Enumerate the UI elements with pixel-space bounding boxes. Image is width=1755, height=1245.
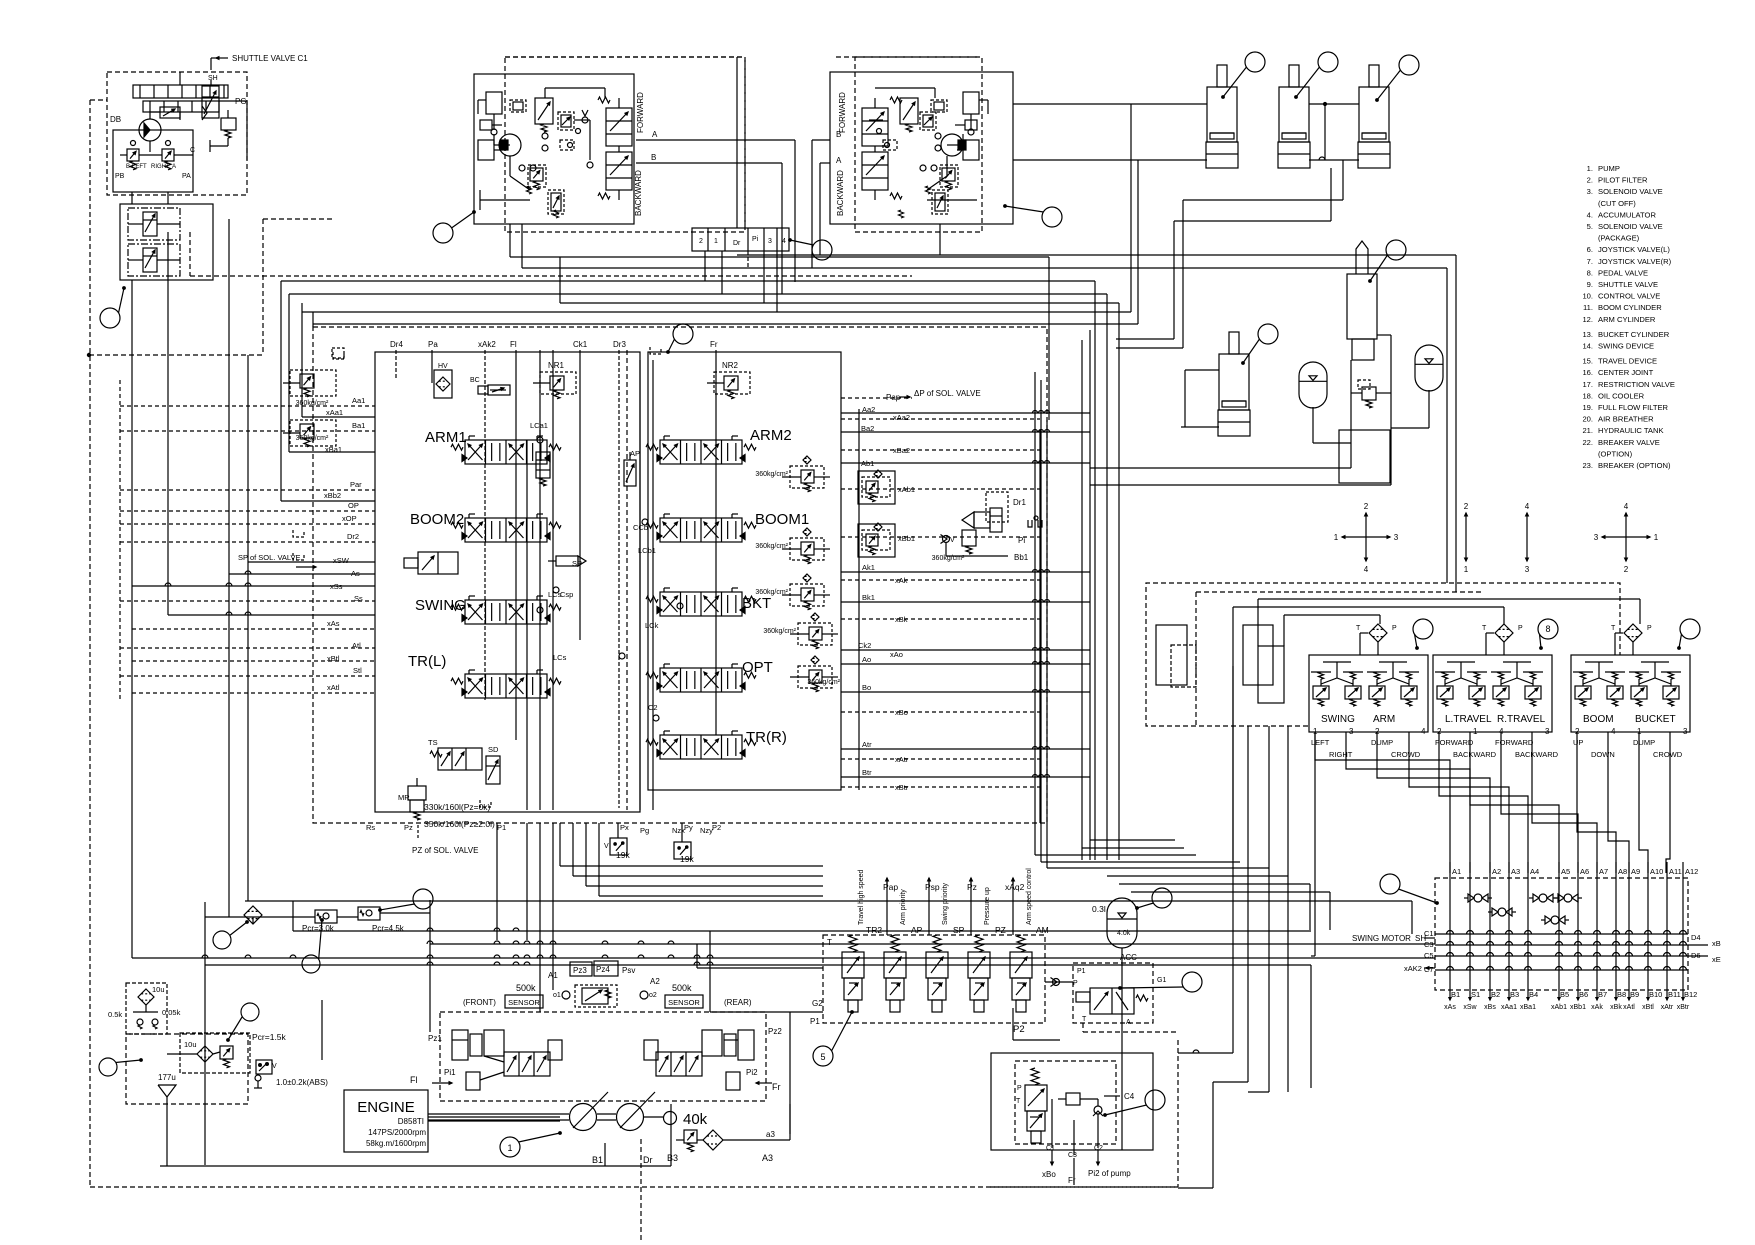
svg-text:Pz1: Pz1 — [428, 1034, 442, 1043]
svg-text:T: T — [1082, 1016, 1087, 1023]
callout filter circles — [213, 931, 231, 949]
pilot block outer dashed box — [107, 72, 247, 195]
svg-text:A6: A6 — [1580, 867, 1589, 876]
svg-text:P: P — [1518, 625, 1523, 632]
svg-text:A10: A10 — [1650, 867, 1663, 876]
pilot pump circle — [139, 119, 161, 141]
svg-text:A2: A2 — [1492, 867, 1501, 876]
svg-text:xBb1: xBb1 — [1570, 1004, 1586, 1011]
svg-text:TR(L): TR(L) — [408, 653, 446, 670]
svg-text:B5: B5 — [1560, 990, 1569, 999]
svg-text:DOWN: DOWN — [1591, 750, 1615, 759]
control valve inner solid boxes — [375, 352, 640, 812]
accumulator mid — [1299, 362, 1327, 408]
svg-text:TS: TS — [428, 738, 438, 747]
svg-text:RIGHT: RIGHT — [1329, 750, 1353, 759]
svg-text:1.: 1. — [1587, 164, 1593, 173]
svg-text:Pap: Pap — [883, 882, 898, 892]
svg-text:P1: P1 — [810, 1017, 820, 1026]
svg-text:xSW: xSW — [333, 556, 350, 565]
wire swing port down to C5 — [1314, 732, 1316, 956]
svg-text:UP: UP — [1573, 738, 1583, 747]
svg-text:Csp: Csp — [560, 590, 573, 599]
callout 1 circle — [500, 1137, 520, 1157]
svg-text:20.: 20. — [1582, 415, 1593, 424]
svg-text:BACKWARD: BACKWARD — [1453, 750, 1497, 759]
svg-text:R.TRAVEL: R.TRAVEL — [1497, 714, 1546, 725]
svg-text:Py: Py — [684, 823, 693, 832]
filter diamond left — [244, 906, 262, 924]
svg-text:P2: P2 — [1013, 1024, 1025, 1035]
pedal feed wires — [1258, 598, 1640, 600]
svg-text:OP: OP — [348, 501, 359, 510]
svg-text:PILOT FILTER: PILOT FILTER — [1598, 176, 1648, 185]
svg-text:D858TI: D858TI — [398, 1117, 424, 1126]
svg-text:ENGINE: ENGINE — [357, 1099, 415, 1116]
svg-text:3: 3 — [1594, 533, 1599, 542]
wire top bundle horizontals — [510, 256, 1049, 258]
joystick L handle — [486, 92, 502, 114]
svg-text:1: 1 — [507, 1143, 512, 1153]
joystick R handle — [963, 92, 979, 114]
pump outer wires — [321, 1000, 323, 1060]
svg-text:PZ: PZ — [995, 925, 1006, 935]
svg-text:360kg/cm²: 360kg/cm² — [807, 679, 840, 686]
svg-text:4: 4 — [1525, 502, 1530, 511]
control valve left port wires dashed — [120, 405, 375, 407]
callout 14 circle — [1386, 240, 1406, 260]
filter block 10u — [126, 983, 167, 1034]
CV right edge pilot rail — [858, 409, 860, 790]
gear pump 40k — [664, 1112, 677, 1125]
svg-text:0.5k: 0.5k — [108, 1010, 122, 1019]
svg-text:3: 3 — [1525, 565, 1530, 574]
svg-text:G2: G2 — [812, 999, 823, 1008]
svg-text:B1: B1 — [592, 1155, 603, 1165]
svg-text:HYDRAULIC TANK: HYDRAULIC TANK — [1598, 426, 1664, 435]
svg-text:Fl: Fl — [510, 340, 517, 349]
svg-text:CROWD: CROWD — [1391, 750, 1421, 759]
svg-text:SOLENOID VALVE: SOLENOID VALVE — [1598, 222, 1663, 231]
svg-text:T: T — [1016, 1098, 1021, 1105]
svg-text:HV: HV — [438, 363, 448, 370]
svg-text:SP: SP — [953, 925, 965, 935]
svg-text:Pa: Pa — [428, 340, 438, 349]
callout 19 circle — [241, 1003, 259, 1021]
svg-text:Aa1: Aa1 — [352, 396, 365, 405]
svg-text:13.: 13. — [1582, 330, 1593, 339]
svg-text:ΔP of SOL. VALVE: ΔP of SOL. VALVE — [914, 389, 981, 398]
joystick L A/B wires — [636, 139, 795, 141]
svg-text:B7: B7 — [1598, 990, 1607, 999]
svg-text:19.: 19. — [1582, 403, 1593, 412]
svg-text:V: V — [272, 1063, 277, 1070]
svg-text:(OPTION): (OPTION) — [1598, 449, 1633, 458]
svg-text:2.: 2. — [1587, 176, 1593, 185]
svg-text:xAo: xAo — [890, 650, 903, 659]
svg-text:xAb1: xAb1 — [1551, 1004, 1567, 1011]
svg-text:T: T — [827, 938, 832, 947]
svg-text:15.: 15. — [1582, 357, 1593, 366]
solenoid package valves — [849, 935, 857, 952]
svg-text:T: T — [1356, 625, 1361, 632]
svg-text:5: 5 — [820, 1052, 825, 1062]
svg-text:Par: Par — [350, 480, 362, 489]
pressure gauge 19k left — [610, 838, 627, 855]
pump dashed box — [440, 1012, 766, 1101]
svg-text:Pcr=4.5k: Pcr=4.5k — [372, 924, 405, 933]
svg-text:xSs: xSs — [330, 582, 343, 591]
svg-text:SWING MOTOR: SWING MOTOR — [1352, 934, 1411, 943]
svg-text:L.TRAVEL: L.TRAVEL — [1445, 714, 1492, 725]
svg-text:23.: 23. — [1582, 461, 1593, 470]
svg-text:360kg/cm²: 360kg/cm² — [296, 435, 329, 442]
svg-text:OIL COOLER: OIL COOLER — [1598, 391, 1645, 400]
svg-text:330k/160l(Pz=0k): 330k/160l(Pz=0k) — [424, 802, 491, 812]
svg-text:Ck2: Ck2 — [858, 641, 871, 650]
svg-text:CONTROL VALVE: CONTROL VALVE — [1598, 292, 1660, 301]
svg-text:177u: 177u — [158, 1073, 176, 1082]
svg-text:1: 1 — [1334, 533, 1339, 542]
svg-text:3: 3 — [1545, 727, 1550, 736]
svg-text:3: 3 — [1683, 727, 1688, 736]
swing device lower bracket — [1339, 430, 1390, 483]
svg-text:P2: P2 — [712, 823, 721, 832]
joystick L extra details — [478, 140, 494, 160]
svg-text:xAa1: xAa1 — [1501, 1004, 1517, 1011]
svg-text:xBtr: xBtr — [1677, 1004, 1690, 1011]
boom/bucket cylinder 3 — [1369, 65, 1379, 87]
pilot manifold box — [113, 130, 193, 192]
svg-text:12.: 12. — [1582, 315, 1593, 324]
svg-text:40k: 40k — [683, 1111, 708, 1128]
right side 360kg relief blocks — [790, 466, 824, 488]
svg-text:A4: A4 — [1530, 867, 1539, 876]
svg-text:JOYSTICK VALVE(R): JOYSTICK VALVE(R) — [1598, 257, 1672, 266]
svg-text:Pcr=1.5k: Pcr=1.5k — [252, 1032, 287, 1042]
HV check valve — [434, 370, 452, 398]
svg-text:BUCKET: BUCKET — [1635, 714, 1676, 725]
svg-text:2: 2 — [699, 238, 703, 245]
svg-text:xBs: xBs — [1484, 1004, 1496, 1011]
control valve outer dashed box — [313, 327, 1047, 823]
svg-text:LCk: LCk — [645, 621, 659, 630]
joystick L more internals — [510, 100, 526, 112]
svg-text:Pi: Pi — [752, 236, 759, 243]
svg-text:BACKWARD: BACKWARD — [836, 170, 845, 216]
svg-text:Pi2: Pi2 — [746, 1068, 758, 1077]
svg-text:10u: 10u — [184, 1040, 197, 1049]
svg-text:Pz4: Pz4 — [596, 965, 610, 974]
joystick L outer solid box — [474, 74, 634, 224]
svg-text:16.: 16. — [1582, 368, 1593, 377]
bottom-left wires — [205, 916, 315, 918]
svg-text:B11: B11 — [1668, 990, 1681, 999]
joystick L spool pair — [606, 108, 632, 146]
svg-text:Btr: Btr — [862, 768, 872, 777]
svg-text:LCa1: LCa1 — [530, 421, 548, 430]
breaker valve symbol — [1031, 1068, 1039, 1085]
pedal assembly inner dashed box — [1196, 591, 1483, 593]
direction cross 3 — [1526, 513, 1528, 537]
svg-text:Pz3: Pz3 — [573, 966, 587, 975]
remote valve SWING/ARM — [1309, 655, 1428, 732]
Ck2 small — [619, 653, 625, 659]
svg-text:ARM1: ARM1 — [425, 429, 467, 446]
svg-text:BACKWARD: BACKWARD — [634, 170, 643, 216]
svg-text:LCs: LCs — [553, 653, 567, 662]
svg-text:xBa1: xBa1 — [325, 445, 342, 454]
svg-text:DUMP: DUMP — [1633, 738, 1655, 747]
svg-text:9.: 9. — [1587, 280, 1593, 289]
svg-text:B4: B4 — [1529, 990, 1538, 999]
svg-text:A1: A1 — [1452, 867, 1461, 876]
svg-text:NR1: NR1 — [548, 361, 565, 370]
manifold relief pair — [127, 149, 139, 161]
joystick L internals — [535, 98, 553, 124]
svg-text:360kg/cm²: 360kg/cm² — [763, 628, 796, 635]
svg-text:SENSOR: SENSOR — [508, 998, 540, 1007]
pressure gauge 19k right — [674, 842, 691, 859]
svg-text:CENTER JOINT: CENTER JOINT — [1598, 368, 1654, 377]
callout 5 circle — [813, 1046, 833, 1066]
svg-text:B3: B3 — [1510, 990, 1519, 999]
svg-text:SWING: SWING — [1321, 714, 1355, 725]
svg-text:Dr3: Dr3 — [613, 340, 626, 349]
svg-text:SWING DEVICE: SWING DEVICE — [1598, 342, 1654, 351]
svg-text:xB: xB — [1712, 939, 1721, 948]
callout cylinder circle — [1245, 52, 1265, 72]
svg-text:Arm priority: Arm priority — [900, 889, 907, 925]
svg-text:P: P — [1017, 1085, 1022, 1092]
svg-text:2: 2 — [1364, 502, 1369, 511]
svg-text:4.: 4. — [1587, 210, 1593, 219]
svg-text:xAq2: xAq2 — [1005, 882, 1025, 892]
solenoid small valve — [160, 107, 180, 118]
svg-text:Dr1: Dr1 — [1013, 498, 1026, 507]
svg-text:Bb1: Bb1 — [1014, 553, 1029, 562]
breaker bottom ports — [1051, 1099, 1053, 1148]
svg-text:xBa1: xBa1 — [1520, 1004, 1536, 1011]
svg-text:xAs: xAs — [1444, 1004, 1456, 1011]
center joint blocks — [1156, 625, 1187, 685]
svg-text:Px: Px — [620, 823, 629, 832]
svg-text:xBb1: xBb1 — [898, 534, 915, 543]
svg-text:xAtl: xAtl — [327, 683, 340, 692]
svg-text:DB: DB — [110, 115, 121, 124]
svg-text:BREAKER (OPTION): BREAKER (OPTION) — [1598, 461, 1671, 470]
svg-text:500k: 500k — [672, 983, 692, 993]
svg-text:A: A — [1126, 1019, 1131, 1026]
joystick R pump — [941, 134, 963, 156]
svg-text:TR(R): TR(R) — [746, 729, 787, 746]
callout cylinder circle — [1399, 55, 1419, 75]
pilot solenoid valve lower — [128, 244, 180, 276]
svg-text:B: B — [126, 164, 130, 170]
boom/bucket cylinder 2 — [1289, 65, 1299, 87]
svg-text:3.: 3. — [1587, 187, 1593, 196]
svg-text:Pi1: Pi1 — [444, 1068, 456, 1077]
terminal verticals — [1449, 862, 1451, 988]
svg-text:A3: A3 — [762, 1153, 773, 1163]
control valve top small symbols — [332, 348, 344, 358]
svg-text:Bk1: Bk1 — [862, 593, 875, 602]
pilot block sub box — [120, 204, 213, 280]
pressure switch ABS — [256, 1060, 272, 1074]
svg-text:Pi2 of pump: Pi2 of pump — [1088, 1169, 1131, 1178]
svg-text:B8: B8 — [1617, 990, 1626, 999]
svg-text:8: 8 — [1545, 624, 1550, 634]
svg-text:10u: 10u — [152, 985, 165, 994]
svg-text:3: 3 — [768, 238, 772, 245]
terminal block dashed box — [1435, 878, 1688, 990]
svg-text:SP: SP — [572, 559, 582, 568]
svg-text:Atl: Atl — [352, 641, 361, 650]
breaker valve dashed box — [1015, 1061, 1116, 1144]
joystick R dashed box — [855, 57, 982, 232]
solenoid package dashed box — [823, 935, 1045, 1023]
swing device — [1356, 241, 1368, 274]
svg-text:4: 4 — [1624, 502, 1629, 511]
Pcr check valve 3.0k — [315, 910, 337, 923]
svg-text:11.: 11. — [1583, 303, 1593, 312]
wire right port rail verticals — [1034, 372, 1036, 855]
svg-text:Pz: Pz — [404, 823, 413, 832]
svg-text:G1: G1 — [1157, 977, 1166, 984]
svg-text:A1: A1 — [548, 971, 558, 980]
svg-text:1: 1 — [1654, 533, 1659, 542]
svg-text:SOLENOID VALVE: SOLENOID VALVE — [1598, 187, 1663, 196]
svg-text:0.05k: 0.05k — [162, 1008, 181, 1017]
svg-text:Fl: Fl — [410, 1075, 418, 1085]
joystick R outer solid box — [830, 72, 1013, 224]
direction cross 4 — [1625, 513, 1627, 537]
svg-text:xOP: xOP — [342, 514, 357, 523]
svg-text:1: 1 — [1473, 727, 1478, 736]
svg-text:BACKWARD: BACKWARD — [1515, 750, 1559, 759]
svg-text:xAa2: xAa2 — [893, 413, 910, 422]
svg-text:xBtl: xBtl — [327, 654, 340, 663]
callout cylinder circle — [1318, 52, 1338, 72]
pilot solenoid valve upper — [128, 208, 180, 240]
svg-text:BOOM1: BOOM1 — [755, 511, 809, 528]
joystick R extra details — [963, 140, 979, 160]
wire bundle CV bottom to package — [559, 823, 561, 866]
boom/bucket cylinder 1 — [1217, 65, 1227, 87]
svg-text:B9: B9 — [1630, 990, 1639, 999]
svg-text:500k: 500k — [516, 983, 536, 993]
svg-text:A12: A12 — [1685, 867, 1698, 876]
svg-text:5.: 5. — [1587, 222, 1593, 231]
vertical bundle to pedal bends — [1035, 854, 1196, 856]
svg-text:6.: 6. — [1587, 245, 1593, 254]
svg-text:58kg.m/1600rpm: 58kg.m/1600rpm — [366, 1139, 426, 1148]
wires to package feeds — [709, 931, 711, 1012]
svg-text:A2: A2 — [650, 977, 660, 986]
svg-text:2: 2 — [1624, 565, 1629, 574]
svg-text:P1: P1 — [497, 823, 506, 832]
joystick L dashed box — [505, 57, 745, 232]
svg-text:Fr: Fr — [772, 1082, 781, 1092]
svg-text:(FRONT): (FRONT) — [463, 998, 496, 1007]
wire left verticals — [131, 280, 133, 958]
callout 20 circle — [99, 1058, 117, 1076]
svg-text:T: T — [1482, 625, 1487, 632]
svg-text:SD: SD — [488, 745, 499, 754]
pump relief + filter — [684, 1130, 697, 1143]
joystick L check valves — [582, 117, 588, 123]
svg-text:Stl: Stl — [353, 666, 362, 675]
svg-text:P: P — [1392, 625, 1397, 632]
remote valve BOOM/BUCKET — [1571, 655, 1690, 732]
svg-text:Ak1: Ak1 — [862, 563, 875, 572]
svg-text:Pi: Pi — [1018, 536, 1025, 545]
svg-text:Dr2: Dr2 — [347, 532, 359, 541]
svg-text:xBo: xBo — [1042, 1170, 1056, 1179]
svg-text:xBb2: xBb2 — [324, 491, 341, 500]
svg-text:A8: A8 — [1618, 867, 1627, 876]
svg-text:ACCUMULATOR: ACCUMULATOR — [1598, 210, 1656, 219]
svg-text:xSw: xSw — [1463, 1004, 1477, 1011]
wire bundle right of CV going down — [1039, 430, 1041, 823]
svg-text:Ss: Ss — [354, 594, 363, 603]
wire left pilot dashed route — [89, 354, 263, 356]
svg-text:8.: 8. — [1587, 268, 1593, 277]
wire mid vertical bundle — [1089, 330, 1091, 860]
svg-text:A3: A3 — [1511, 867, 1520, 876]
svg-text:PEDAL VALVE: PEDAL VALVE — [1598, 268, 1648, 277]
svg-text:C4: C4 — [1124, 1092, 1135, 1101]
svg-text:A5: A5 — [1561, 867, 1570, 876]
svg-text:C: C — [190, 147, 195, 154]
ENGINE box — [344, 1090, 428, 1152]
port relief Aa1 360kg — [290, 370, 336, 396]
svg-text:18.: 18. — [1582, 391, 1593, 400]
svg-text:B: B — [651, 153, 656, 162]
callout 22 circle — [1145, 1090, 1165, 1110]
svg-text:xBk: xBk — [1610, 1004, 1622, 1011]
svg-text:TR2: TR2 — [866, 925, 882, 935]
control valve bottom wires — [539, 823, 541, 1012]
svg-text:Fr: Fr — [1068, 1176, 1076, 1185]
svg-text:o1: o1 — [553, 992, 561, 999]
svg-text:C5: C5 — [1424, 951, 1434, 960]
joystick R A/B wires — [812, 139, 830, 141]
cut-off valve block — [1073, 963, 1153, 1023]
callout 7 circle — [1042, 207, 1062, 227]
svg-text:360kg/cm²: 360kg/cm² — [755, 471, 788, 478]
svg-text:Ao: Ao — [862, 655, 871, 664]
svg-text:350k/160l(Pz≥2.0l): 350k/160l(Pz≥2.0l) — [424, 819, 495, 829]
svg-text:xBtl: xBtl — [1642, 1004, 1654, 1011]
svg-text:FORWARD: FORWARD — [636, 92, 645, 133]
svg-text:B1: B1 — [1451, 990, 1460, 999]
V relief under Dr1 — [962, 530, 976, 546]
svg-text:17.: 17. — [1582, 380, 1593, 389]
direction cross 2 — [1465, 513, 1467, 537]
svg-text:SP of SOL. VALVE: SP of SOL. VALVE — [238, 553, 301, 562]
relief mid 545 — [536, 452, 550, 478]
svg-text:22.: 22. — [1582, 438, 1593, 447]
svg-text:AP: AP — [911, 925, 923, 935]
svg-text:Psp: Psp — [925, 882, 940, 892]
svg-text:4: 4 — [1421, 727, 1426, 736]
svg-text:BOOM: BOOM — [1583, 714, 1614, 725]
tank dashed box — [126, 1034, 248, 1104]
svg-text:P1: P1 — [1077, 968, 1086, 975]
svg-text:1: 1 — [714, 238, 718, 245]
svg-text:Dr: Dr — [733, 240, 741, 247]
